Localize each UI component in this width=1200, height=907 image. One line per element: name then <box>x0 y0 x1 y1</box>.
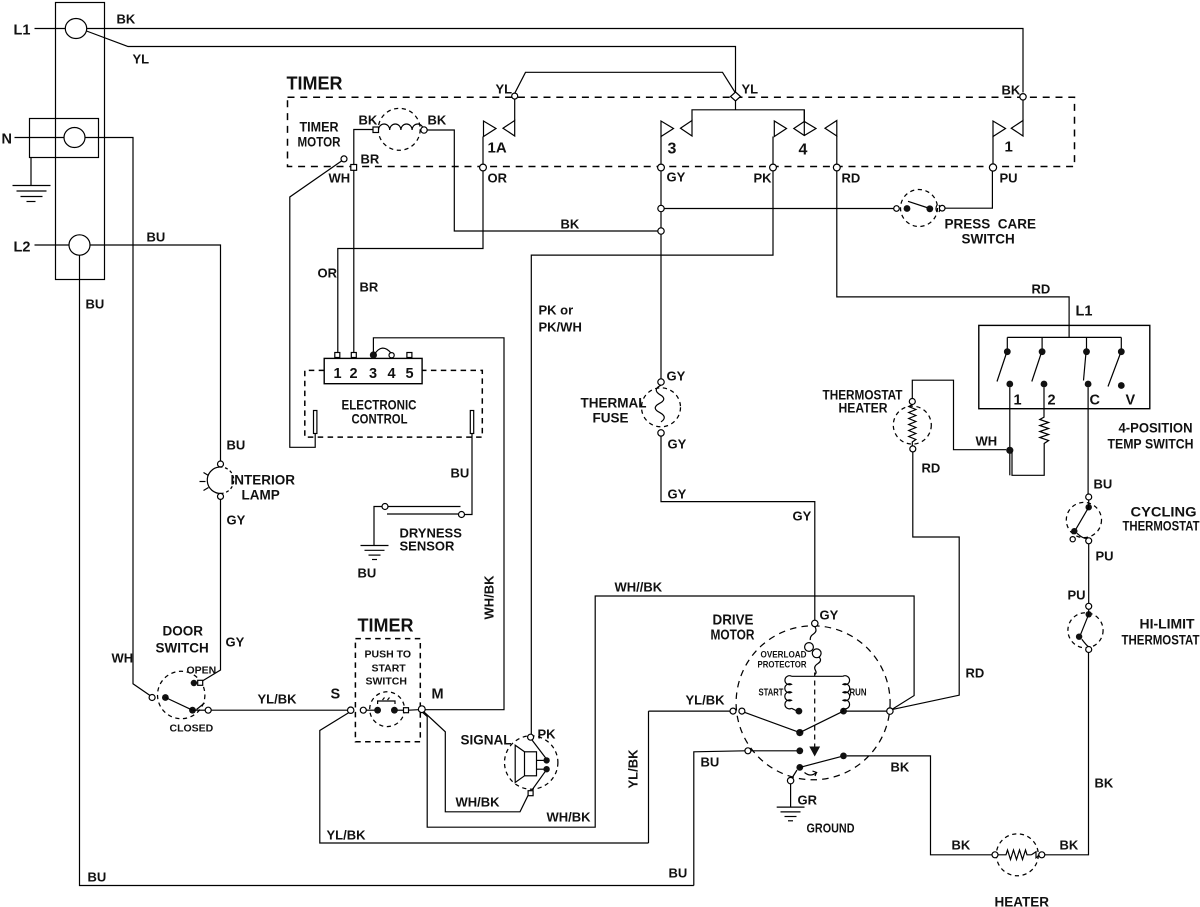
svg-text:WH/BK: WH/BK <box>456 795 501 810</box>
svg-text:4: 4 <box>388 366 396 382</box>
wire BU into motor <box>694 747 803 885</box>
svg-text:PUSH TO: PUSH TO <box>365 649 411 661</box>
svg-text:1: 1 <box>334 366 342 382</box>
wire BU control to dryness sensor <box>451 434 473 515</box>
heater <box>992 834 1079 907</box>
motor windings <box>759 673 867 715</box>
svg-text:3: 3 <box>668 141 677 158</box>
terminal N <box>2 128 86 148</box>
terminal block <box>30 3 105 280</box>
press care switch <box>894 190 1036 247</box>
pin 2 terminal <box>351 353 356 358</box>
svg-text:OR: OR <box>318 266 338 281</box>
svg-text:N: N <box>2 132 12 148</box>
wire WH/BK control pin3 to M <box>373 338 504 710</box>
node OR + label <box>480 164 508 185</box>
thermal fuse <box>581 369 687 452</box>
svg-text:BR: BR <box>361 152 380 167</box>
ground (service) <box>13 158 51 202</box>
svg-text:YL/BK: YL/BK <box>626 749 641 789</box>
svg-text:1A: 1A <box>488 140 507 157</box>
svg-text:C: C <box>1090 393 1101 409</box>
svg-text:RD: RD <box>1032 282 1051 297</box>
contact 1 <box>993 100 1023 165</box>
wire to press care switch <box>664 208 893 210</box>
wire YL/BK to motor <box>626 693 745 844</box>
svg-text:BK: BK <box>1002 83 1021 98</box>
svg-text:BU: BU <box>701 755 720 770</box>
svg-text:INTERIOR: INTERIOR <box>231 473 296 488</box>
svg-text:MOTOR: MOTOR <box>298 135 341 150</box>
svg-text:4-POSITION: 4-POSITION <box>1119 421 1193 436</box>
svg-text:SIGNAL: SIGNAL <box>461 733 512 748</box>
svg-text:2: 2 <box>350 366 358 382</box>
node on GY at BK wire <box>658 228 664 234</box>
svg-text:OR: OR <box>488 171 508 186</box>
svg-text:WH//BK: WH//BK <box>615 580 663 595</box>
svg-text:BK: BK <box>891 760 910 775</box>
svg-text:WH: WH <box>976 434 998 449</box>
wire thermostat heater link <box>912 380 1006 450</box>
svg-text:GY: GY <box>820 608 839 623</box>
svg-text:BR: BR <box>360 280 379 295</box>
wire S down to YL/BK bottom run <box>320 713 649 844</box>
svg-text:TIMER: TIMER <box>287 74 343 94</box>
svg-text:BU: BU <box>1094 477 1113 492</box>
wire GY fuse to drive motor <box>661 436 815 620</box>
pin 3 terminal <box>370 351 377 358</box>
svg-text:YL: YL <box>496 82 513 97</box>
svg-text:BU: BU <box>669 866 688 881</box>
svg-text:SWITCH: SWITCH <box>156 641 209 656</box>
4-position temp switch S2 <box>979 325 1194 451</box>
svg-text:GY: GY <box>667 369 686 384</box>
thermostat heater R1 <box>823 388 932 452</box>
wire WH temp1 down <box>976 387 1010 475</box>
svg-text:PU: PU <box>1000 171 1018 186</box>
wire WH from N <box>85 138 152 697</box>
wire GY vertical <box>660 171 662 379</box>
contact 1A <box>483 82 518 165</box>
node GY + label <box>658 164 686 184</box>
wire YL/BK door switch to S <box>211 692 348 711</box>
terminal L1 <box>14 19 87 39</box>
push-to-start timer <box>331 616 444 742</box>
svg-text:PU: PU <box>1096 549 1114 564</box>
svg-text:PK or: PK or <box>539 303 574 318</box>
resistor under temp switch 2 <box>1012 387 1049 475</box>
svg-text:BK: BK <box>428 113 447 128</box>
svg-text:RD: RD <box>842 171 861 186</box>
svg-text:START: START <box>759 688 784 699</box>
node on GY at press-care wire <box>658 205 664 211</box>
svg-text:CYCLING: CYCLING <box>1131 505 1197 520</box>
wire YL from L1 <box>87 31 736 93</box>
node WH junction <box>1006 447 1013 454</box>
svg-text:YL/BK: YL/BK <box>686 693 726 708</box>
wire YL bump over timer <box>515 72 736 93</box>
svg-text:BU: BU <box>86 297 105 312</box>
svg-text:THERMAL: THERMAL <box>581 396 647 411</box>
pin 4 terminal <box>389 353 394 358</box>
svg-text:THERMOSTAT: THERMOSTAT <box>1123 519 1200 534</box>
svg-text:THERMOSTAT: THERMOSTAT <box>1122 633 1200 648</box>
svg-text:PROTECTOR: PROTECTOR <box>758 660 807 671</box>
jumper arc pins 3-4 <box>375 348 391 353</box>
motor ground terminal <box>787 770 797 807</box>
node RD + label <box>833 164 860 185</box>
svg-text:HI-LIMIT: HI-LIMIT <box>1140 617 1196 632</box>
svg-text:BK: BK <box>117 12 136 27</box>
svg-text:OPEN: OPEN <box>187 665 217 677</box>
svg-text:GY: GY <box>667 170 686 185</box>
timer motor <box>298 108 447 150</box>
svg-text:MOTOR: MOTOR <box>711 627 755 644</box>
drive motor M1 <box>711 612 891 780</box>
wire to sensor ground <box>374 507 382 546</box>
svg-text:L1: L1 <box>1076 304 1093 320</box>
svg-text:CONTROL: CONTROL <box>352 411 408 427</box>
svg-text:5: 5 <box>406 366 414 382</box>
wire BU from L2 bottom run <box>80 255 694 885</box>
contact 4 <box>773 110 837 165</box>
svg-text:FUSE: FUSE <box>593 411 629 426</box>
svg-text:RD: RD <box>966 666 985 681</box>
wire BR to control pin 2 <box>354 170 379 352</box>
svg-text:PK: PK <box>538 727 557 742</box>
node YL (diamond) <box>731 82 759 102</box>
wire WH arm from timer <box>290 156 350 447</box>
wire PK from contact 4 to signal <box>531 171 773 742</box>
svg-text:PK: PK <box>754 171 773 186</box>
contact 3 <box>661 101 804 165</box>
svg-text:GY: GY <box>668 487 687 502</box>
svg-text:2: 2 <box>1048 393 1056 409</box>
svg-text:WH: WH <box>112 651 134 666</box>
pin 1 terminal <box>335 353 340 358</box>
svg-text:BK: BK <box>561 217 580 232</box>
wire M to motor (WH//BK long run) <box>423 580 914 828</box>
node PK + label <box>754 164 777 185</box>
ground (motor) <box>777 793 855 836</box>
svg-text:L2: L2 <box>14 240 31 256</box>
svg-text:L1: L1 <box>14 23 31 39</box>
wire M to WH/BK signal branch <box>424 712 591 825</box>
svg-text:1: 1 <box>1005 139 1013 156</box>
ground (dryness sensor) <box>358 546 389 581</box>
svg-text:BK: BK <box>359 113 378 128</box>
svg-text:YL/BK: YL/BK <box>258 692 298 707</box>
svg-text:BK: BK <box>952 838 971 853</box>
wire BK motor to heater <box>847 756 992 855</box>
svg-text:GY: GY <box>226 635 245 650</box>
node BK on timer top <box>1002 83 1027 101</box>
wire RD contact4 to temp switch <box>837 171 1093 326</box>
svg-text:YL: YL <box>133 52 150 67</box>
wire PU cycling to hi-limit <box>1068 544 1114 604</box>
svg-text:PK/WH: PK/WH <box>539 320 582 335</box>
svg-text:YL: YL <box>742 82 759 97</box>
motor lower contact and blade <box>796 753 847 777</box>
svg-text:V: V <box>1126 393 1136 409</box>
svg-text:SENSOR: SENSOR <box>400 539 456 554</box>
svg-text:1: 1 <box>1014 393 1022 409</box>
wire BU from L2 to interior lamp <box>90 230 221 462</box>
svg-text:BK: BK <box>1095 776 1114 791</box>
svg-text:WH: WH <box>329 171 351 186</box>
wire OR to control pin 1 <box>318 171 484 353</box>
start switch blade <box>745 711 844 736</box>
svg-text:PU: PU <box>1068 588 1086 603</box>
svg-text:YL/BK: YL/BK <box>327 828 367 843</box>
svg-text:RUN: RUN <box>850 688 867 699</box>
hi-limit thermostat <box>1068 603 1200 652</box>
door switch <box>149 624 216 735</box>
svg-text:TIMER: TIMER <box>300 120 339 135</box>
svg-text:START: START <box>372 663 407 675</box>
wire GY lamp to door switch <box>202 499 246 681</box>
svg-text:BK: BK <box>1060 838 1079 853</box>
electronic control U1 <box>305 358 483 437</box>
svg-text:CLOSED: CLOSED <box>170 723 214 735</box>
wire BK from L1 <box>87 12 1023 93</box>
svg-text:BU: BU <box>227 438 246 453</box>
svg-text:4: 4 <box>799 142 808 159</box>
svg-text:BU: BU <box>451 466 470 481</box>
wire PU press care to timer <box>945 171 992 208</box>
svg-text:WH/BK: WH/BK <box>482 575 497 620</box>
svg-text:RD: RD <box>922 461 941 476</box>
node BR (square on timer edge) <box>351 165 357 171</box>
svg-text:GY: GY <box>227 513 246 528</box>
svg-text:HEATER: HEATER <box>995 895 1050 907</box>
timer box <box>287 74 1075 167</box>
node PU + label <box>989 164 1017 186</box>
svg-text:GROUND: GROUND <box>807 821 855 836</box>
wire BR stub timer motor <box>354 130 380 167</box>
pin bar left (electronic control) <box>470 411 473 434</box>
overload protector <box>758 627 822 675</box>
svg-text:LAMP: LAMP <box>242 488 280 503</box>
svg-text:BU: BU <box>88 870 107 885</box>
interior lamp <box>200 438 296 503</box>
svg-text:SWITCH: SWITCH <box>962 232 1015 247</box>
wire BU temp C to cycling thermostat <box>1088 387 1112 494</box>
wire BK timer motor to GY line <box>427 130 658 232</box>
svg-text:BU: BU <box>358 566 377 581</box>
svg-text:WH/BK: WH/BK <box>547 810 592 825</box>
signal <box>461 733 558 796</box>
svg-text:M: M <box>432 687 444 703</box>
svg-text:SWITCH: SWITCH <box>366 676 407 688</box>
svg-text:TIMER: TIMER <box>358 616 414 636</box>
svg-text:GR: GR <box>798 793 818 808</box>
terminal L2 <box>14 235 91 256</box>
wire BK heater to hi-limit <box>1045 653 1114 855</box>
node GY at motor <box>812 608 839 627</box>
svg-text:S: S <box>331 687 341 703</box>
svg-text:DOOR: DOOR <box>163 624 204 639</box>
dryness sensor <box>382 504 465 554</box>
wire run output <box>847 708 894 714</box>
svg-text:GY: GY <box>668 437 687 452</box>
svg-text:GY: GY <box>793 509 812 524</box>
svg-text:3: 3 <box>369 366 377 382</box>
pin 5 terminal <box>407 353 412 358</box>
svg-text:HEATER: HEATER <box>839 401 888 416</box>
svg-text:TEMP SWITCH: TEMP SWITCH <box>1108 437 1194 452</box>
cycling thermostat <box>1066 494 1200 544</box>
wire RD thermostat heater to motor <box>893 452 985 710</box>
centrifugal actuator <box>809 681 820 757</box>
svg-text:BU: BU <box>147 230 166 245</box>
svg-text:PRESS CARE: PRESS CARE <box>945 217 1037 232</box>
